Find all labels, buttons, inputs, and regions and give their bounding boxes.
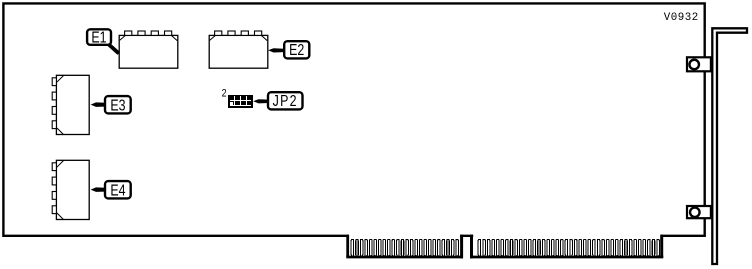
callout E3 tail — [91, 102, 106, 107]
chip E3 chamfers — [57, 76, 64, 83]
callout E1 tail — [106, 42, 119, 54]
edge connector group 2 right wall — [660, 235, 663, 258]
svg-text:E4: E4 — [110, 181, 125, 199]
callout JP2 box — [268, 92, 303, 109]
chip E3 pins — [52, 78, 56, 129]
svg-text:E2: E2 — [289, 40, 304, 58]
svg-text:E3: E3 — [110, 96, 125, 114]
chip E1 body — [119, 35, 178, 68]
chip E1 pins — [125, 31, 172, 35]
callout E2 box — [284, 41, 309, 58]
edge connector group 2 bottom — [470, 256, 663, 259]
chip E2 body — [209, 35, 268, 68]
edge connector group 2 teeth — [478, 239, 659, 256]
edge connector group 1 teeth — [351, 239, 458, 256]
bracket — [712, 28, 747, 264]
callout E4 tail — [91, 187, 106, 192]
chip E2 pins — [215, 31, 262, 35]
svg-text:JP2: JP2 — [273, 92, 298, 110]
screw hole top — [689, 60, 699, 70]
connector cutout mask over bottom edge — [349, 234, 460, 239]
callout E3 box — [105, 96, 131, 113]
callout JP2 tail — [253, 99, 268, 103]
chip E4 pins — [52, 163, 56, 214]
callout E2 tail — [268, 48, 284, 52]
edge connector group 1 bottom — [346, 256, 463, 259]
bracket screw tab bottom — [687, 206, 711, 218]
svg-text:V0932: V0932 — [664, 12, 699, 24]
edge connector key notch — [460, 235, 463, 259]
callout E1 box — [87, 29, 111, 45]
screw hole bottom — [690, 208, 700, 218]
chip E1 chamfers — [120, 36, 126, 41]
svg-text:E1: E1 — [91, 28, 106, 46]
callout E4 box — [105, 181, 131, 198]
svg-text:2: 2 — [222, 88, 227, 100]
bracket screw tab top — [687, 57, 711, 71]
edge connector group 1 left wall — [346, 235, 349, 258]
chip E2 chamfers — [210, 36, 216, 41]
chip E4 chamfers — [57, 161, 64, 168]
chip E3 body — [56, 75, 89, 134]
jumper JP2 block — [228, 95, 253, 108]
chip E4 body — [56, 160, 89, 219]
